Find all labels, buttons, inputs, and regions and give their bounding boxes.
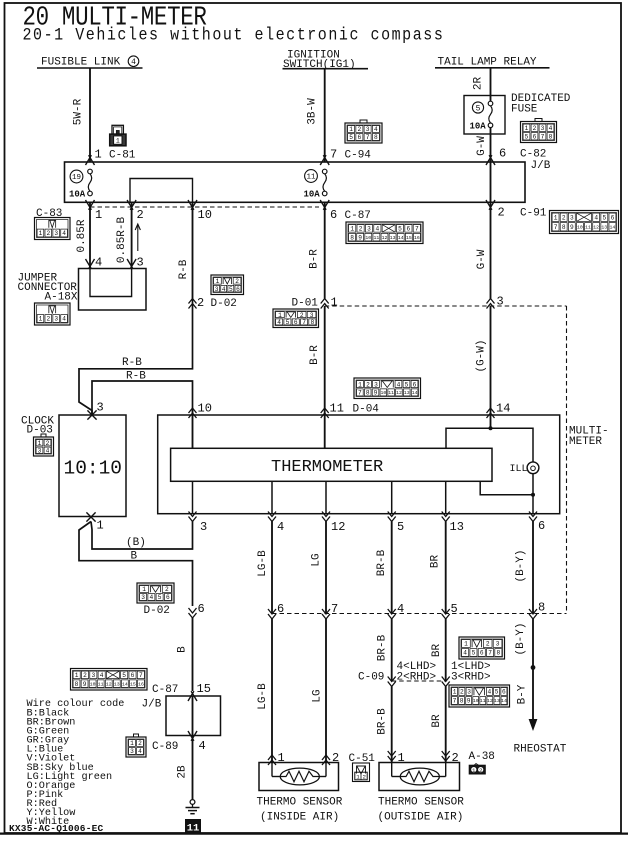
pin 4 jumper xyxy=(86,256,103,270)
svg-text:THERMOMETER: THERMOMETER xyxy=(271,458,383,477)
connector C-87 icon xyxy=(346,222,423,244)
svg-text:2: 2 xyxy=(562,214,566,221)
svg-text:LG-B: LG-B xyxy=(257,550,269,577)
label INSIDE AIR xyxy=(260,812,339,824)
label JUMPER CONNECTOR A-18X xyxy=(18,273,78,304)
svg-text:BR: BR xyxy=(431,714,443,728)
svg-text:1: 1 xyxy=(525,125,529,132)
svg-text:6: 6 xyxy=(166,594,170,601)
svg-text:5: 5 xyxy=(158,594,162,601)
svg-text:(B-Y): (B-Y) xyxy=(515,549,527,582)
svg-text:6: 6 xyxy=(330,208,337,222)
svg-text:BR: BR xyxy=(431,644,443,658)
wire pin11 to thermometer xyxy=(324,415,326,448)
svg-text:B-R: B-R xyxy=(309,345,321,365)
svg-text:2: 2 xyxy=(165,586,169,593)
connector C-82 icon xyxy=(521,119,557,143)
svg-text:D-02: D-02 xyxy=(144,605,170,617)
svg-text:16: 16 xyxy=(138,681,144,687)
svg-text:1: 1 xyxy=(39,230,43,237)
clock display 10:10 xyxy=(64,458,123,480)
svg-text:5W-R: 5W-R xyxy=(73,98,85,125)
svg-text:1: 1 xyxy=(350,226,354,233)
wire 0.85R-B xyxy=(116,202,132,268)
svg-text:2: 2 xyxy=(235,278,239,285)
svg-text:C-83: C-83 xyxy=(36,208,62,220)
connector C-91 icon xyxy=(550,211,619,234)
wire thermometer pin3 stub xyxy=(192,481,194,513)
svg-text:10: 10 xyxy=(198,208,212,222)
wire thermometer to ILL bottom xyxy=(480,481,533,495)
svg-text:8: 8 xyxy=(549,133,553,140)
svg-text:3: 3 xyxy=(97,401,104,415)
pin 4 multimeter xyxy=(268,512,284,535)
pin 3 clock xyxy=(87,401,103,420)
connector D-01 icon xyxy=(273,309,319,328)
wire 2R tail lamp relay to fuse xyxy=(473,68,491,102)
svg-text:6: 6 xyxy=(236,286,240,293)
svg-text:15: 15 xyxy=(130,681,136,687)
svg-text:4: 4 xyxy=(397,381,401,388)
pin 15 C-87 xyxy=(152,682,211,701)
connector D-03 icon xyxy=(34,434,54,456)
svg-text:2: 2 xyxy=(197,296,204,310)
svg-text:J/B: J/B xyxy=(531,160,551,172)
svg-text:2: 2 xyxy=(46,316,50,323)
svg-text:G-W: G-W xyxy=(476,136,488,156)
svg-text:12: 12 xyxy=(396,390,402,396)
svg-text:13: 13 xyxy=(404,390,410,396)
wire R-B to clock xyxy=(79,299,193,416)
resistor outside sensor xyxy=(392,763,446,785)
svg-text:8: 8 xyxy=(310,319,314,326)
svg-text:2: 2 xyxy=(138,740,142,747)
label DEDICATED FUSE xyxy=(511,93,571,116)
svg-text:5: 5 xyxy=(398,226,402,233)
svg-text:5: 5 xyxy=(525,133,529,140)
svg-text:A-38: A-38 xyxy=(469,751,495,763)
connector D-02 icon lower xyxy=(137,583,174,603)
svg-text:8: 8 xyxy=(350,234,354,241)
svg-text:LG: LG xyxy=(311,553,323,566)
node B-Y junction xyxy=(531,665,536,670)
multimeter dashed boundary right xyxy=(566,306,568,614)
svg-text:5: 5 xyxy=(229,286,233,293)
svg-text:5: 5 xyxy=(472,650,476,657)
label J/B xyxy=(531,160,551,172)
svg-text:4: 4 xyxy=(463,650,467,657)
wire B-R upper xyxy=(309,202,325,298)
svg-text:6: 6 xyxy=(538,519,545,533)
svg-text:1: 1 xyxy=(216,278,220,285)
pin 8 row xyxy=(529,601,545,620)
label 10A middle xyxy=(304,190,321,200)
svg-text:6: 6 xyxy=(407,226,411,233)
jumper connector box xyxy=(79,269,147,311)
svg-text:10: 10 xyxy=(473,698,479,704)
wire thermometer pin12 stub xyxy=(325,481,327,513)
svg-text:10A: 10A xyxy=(69,190,86,200)
svg-text:14: 14 xyxy=(122,681,128,687)
pin 1 J/B left xyxy=(86,200,103,222)
svg-text:1: 1 xyxy=(464,641,468,648)
wire (G-W) lower xyxy=(476,306,491,408)
svg-text:4: 4 xyxy=(277,319,281,326)
svg-text:11: 11 xyxy=(306,174,316,182)
svg-text:D-03: D-03 xyxy=(27,425,53,437)
svg-text:11: 11 xyxy=(388,390,394,396)
svg-text:8: 8 xyxy=(374,134,378,141)
pin 5 row xyxy=(442,602,458,619)
svg-text:BR-B: BR-B xyxy=(377,708,389,735)
wire 0.85R xyxy=(76,202,90,268)
label CLOCK D-03 xyxy=(21,416,54,437)
lamp ILL xyxy=(510,462,539,475)
connector C-94 icon xyxy=(345,120,382,143)
svg-text:5: 5 xyxy=(286,319,290,326)
svg-text:2: 2 xyxy=(358,126,362,133)
label MULTI-METER xyxy=(569,426,609,449)
subtitle xyxy=(23,26,445,45)
svg-text:11: 11 xyxy=(585,224,591,230)
node FUSIBLE LINK 4 xyxy=(37,56,143,69)
svg-text:6: 6 xyxy=(502,689,506,696)
svg-text:FUSE: FUSE xyxy=(511,104,538,116)
svg-text:2: 2 xyxy=(300,312,304,319)
svg-text:2<RHD>: 2<RHD> xyxy=(397,672,437,684)
pin 1 inside sensor xyxy=(268,751,285,765)
svg-text:2: 2 xyxy=(366,381,370,388)
svg-text:7: 7 xyxy=(554,224,558,231)
svg-text:RHEOSTAT: RHEOSTAT xyxy=(514,744,567,756)
svg-text:4: 4 xyxy=(277,520,284,534)
pin 7 C-94 xyxy=(320,148,371,166)
svg-text:1: 1 xyxy=(38,440,42,447)
connector C-09 icon LHD xyxy=(459,637,505,659)
connector C-09 icon RHD xyxy=(449,685,510,707)
svg-text:KX35-AC-Q1006-EC: KX35-AC-Q1006-EC xyxy=(9,823,104,834)
connector row C-09 dashed xyxy=(392,680,446,682)
svg-text:9: 9 xyxy=(83,681,87,688)
svg-text:5: 5 xyxy=(405,381,409,388)
svg-text:1: 1 xyxy=(39,316,43,323)
svg-text:C-82: C-82 xyxy=(520,149,546,161)
svg-text:7: 7 xyxy=(139,672,143,679)
wire colour code legend xyxy=(27,698,125,828)
svg-text:B: B xyxy=(177,646,189,653)
svg-text:4: 4 xyxy=(138,748,142,755)
wire 3B-W ignition to J/B xyxy=(307,69,325,162)
connector C-83 icon xyxy=(35,218,71,240)
svg-text:2: 2 xyxy=(479,767,483,774)
pin 6 D-02 B wire xyxy=(144,602,205,618)
pin 12 multimeter xyxy=(322,512,345,535)
pin 4-2 C-09 xyxy=(358,661,436,687)
svg-text:7: 7 xyxy=(415,226,419,233)
svg-text:METER: METER xyxy=(569,436,602,448)
pin 1 outside sensor xyxy=(388,751,405,765)
svg-text:8: 8 xyxy=(562,224,566,231)
wire B-Y lower xyxy=(515,619,533,728)
pin 1-3 C-09 xyxy=(442,661,491,687)
svg-text:12: 12 xyxy=(382,235,388,241)
svg-text:9: 9 xyxy=(467,698,471,705)
label OUTSIDE AIR xyxy=(378,812,464,824)
svg-text:C-81: C-81 xyxy=(109,150,136,162)
footer document number xyxy=(9,823,104,834)
svg-text:14: 14 xyxy=(610,224,616,230)
svg-text:10: 10 xyxy=(90,681,96,687)
svg-text:2: 2 xyxy=(46,230,50,237)
svg-text:8: 8 xyxy=(496,650,500,657)
svg-text:13: 13 xyxy=(601,224,607,230)
wire LG upper xyxy=(311,522,327,614)
connector A-38 label xyxy=(469,751,495,763)
pin 1 C-81 xyxy=(86,148,136,166)
svg-text:11: 11 xyxy=(330,402,344,416)
label THERMO SENSOR inside xyxy=(257,797,343,809)
wire B clock to ground chain xyxy=(79,522,193,607)
resistor inside sensor xyxy=(272,763,326,785)
svg-text:10: 10 xyxy=(365,235,371,241)
svg-text:1: 1 xyxy=(278,312,282,319)
wire R-B from J/B pin 10 xyxy=(178,202,193,298)
wire BR-B mid xyxy=(377,619,392,681)
wire LG-B upper xyxy=(257,522,272,614)
pin 6 C-82 xyxy=(486,147,546,166)
svg-text:D-02: D-02 xyxy=(211,298,237,310)
pin 4 C-89 xyxy=(152,731,206,753)
svg-text:1: 1 xyxy=(95,148,102,162)
fuse element middle xyxy=(322,169,327,196)
svg-text:FUSIBLE LINK: FUSIBLE LINK xyxy=(41,57,121,69)
connector D-04 icon xyxy=(354,378,421,399)
pin 4 row xyxy=(388,602,405,619)
dedicated fuse box xyxy=(464,96,505,135)
svg-text:6: 6 xyxy=(611,214,615,221)
thermometer box xyxy=(171,448,492,481)
svg-text:6: 6 xyxy=(413,381,417,388)
svg-text:LG-B: LG-B xyxy=(257,683,269,710)
svg-text:2: 2 xyxy=(83,672,87,679)
wire thermometer pin5 stub xyxy=(391,481,393,513)
junction block J/B box xyxy=(65,162,526,202)
svg-text:7: 7 xyxy=(302,319,306,326)
svg-text:6: 6 xyxy=(499,147,506,161)
connector row C-83 dashed line xyxy=(90,206,319,208)
multimeter box xyxy=(158,415,560,514)
pin 2 C-91 xyxy=(486,200,547,220)
svg-text:3: 3 xyxy=(38,447,42,454)
svg-text:(B-Y): (B-Y) xyxy=(515,622,527,655)
connector A-18X icon xyxy=(35,303,71,325)
svg-text:1: 1 xyxy=(349,126,353,133)
pin 3 jumper xyxy=(127,256,144,270)
svg-text:1: 1 xyxy=(130,740,134,747)
svg-text:4: 4 xyxy=(150,594,154,601)
svg-text:D-01: D-01 xyxy=(292,298,319,310)
svg-text:1: 1 xyxy=(75,672,79,679)
svg-text:14: 14 xyxy=(398,235,404,241)
svg-text:12: 12 xyxy=(331,520,345,534)
svg-text:8: 8 xyxy=(75,681,79,688)
svg-text:4: 4 xyxy=(222,286,226,293)
svg-text:14: 14 xyxy=(496,402,510,416)
fuse 19 circled xyxy=(70,170,83,183)
svg-text:5: 5 xyxy=(476,104,481,113)
svg-text:8: 8 xyxy=(460,698,464,705)
svg-text:9: 9 xyxy=(570,224,574,231)
svg-text:1: 1 xyxy=(97,519,104,533)
svg-text:4: 4 xyxy=(199,739,206,753)
svg-text:6: 6 xyxy=(294,319,298,326)
svg-text:2: 2 xyxy=(486,641,490,648)
svg-text:0.85R: 0.85R xyxy=(76,219,88,252)
fuse element left xyxy=(88,169,93,196)
svg-text:4: 4 xyxy=(46,447,50,454)
pin 3 D-01 xyxy=(487,295,504,309)
connector A-38 icon xyxy=(469,764,485,774)
svg-text:13: 13 xyxy=(390,235,396,241)
pin 6 multimeter xyxy=(529,512,545,534)
wire B-R pin11 stub xyxy=(324,408,326,415)
wire BR-B upper xyxy=(376,522,392,614)
pin 7 row xyxy=(322,602,338,619)
pin 10 multimeter xyxy=(189,402,212,419)
svg-text:1: 1 xyxy=(356,774,360,781)
svg-text:4: 4 xyxy=(100,672,104,679)
svg-text:4: 4 xyxy=(374,126,378,133)
svg-text:16: 16 xyxy=(414,235,420,241)
svg-text:4: 4 xyxy=(95,256,102,270)
svg-text:C-09: C-09 xyxy=(358,672,384,684)
svg-text:12: 12 xyxy=(487,698,493,704)
svg-text:D-04: D-04 xyxy=(353,404,380,416)
wire 5W-R fusible link to J/B xyxy=(73,68,91,162)
svg-text:1: 1 xyxy=(472,767,476,774)
svg-text:19: 19 xyxy=(72,174,81,182)
svg-text:2: 2 xyxy=(460,689,464,696)
svg-text:3: 3 xyxy=(54,316,58,323)
pin 13 multimeter xyxy=(442,512,464,535)
svg-text:4: 4 xyxy=(62,230,66,237)
svg-text:ILL: ILL xyxy=(510,464,528,475)
wire G-W through J/B xyxy=(490,162,492,202)
connector C-83 label xyxy=(36,208,62,220)
svg-text:12: 12 xyxy=(106,681,112,687)
pin 1 D-01 xyxy=(292,296,338,310)
svg-text:2R: 2R xyxy=(473,77,485,91)
svg-text:11: 11 xyxy=(187,823,200,835)
svg-text:5: 5 xyxy=(602,214,606,221)
wire pin6 inside box xyxy=(532,495,534,514)
svg-text:BR-B: BR-B xyxy=(376,549,388,576)
wire BR upper xyxy=(430,522,446,614)
svg-text:5: 5 xyxy=(349,134,353,141)
svg-text:BR-B: BR-B xyxy=(377,634,389,661)
svg-text:3: 3 xyxy=(496,641,500,648)
svg-text:1: 1 xyxy=(358,381,362,388)
svg-text:3: 3 xyxy=(541,125,545,132)
svg-text:B-Y: B-Y xyxy=(517,684,529,704)
svg-text:3: 3 xyxy=(467,689,471,696)
pin 11 D-04 xyxy=(321,402,380,419)
wire LG lower xyxy=(312,619,327,763)
svg-text:15: 15 xyxy=(197,682,211,696)
svg-text:6: 6 xyxy=(131,672,135,679)
junction block J/B lower box xyxy=(142,696,221,736)
svg-text:3: 3 xyxy=(310,312,314,319)
svg-text:6: 6 xyxy=(480,650,484,657)
pin 2 D-02 xyxy=(189,296,237,310)
svg-text:R-B: R-B xyxy=(126,371,146,383)
wire junction to ILL lamp xyxy=(491,428,534,462)
svg-text:3: 3 xyxy=(570,214,574,221)
fuse 11 circled xyxy=(305,170,318,183)
label 10A dedicated xyxy=(470,122,487,132)
svg-text:4: 4 xyxy=(549,125,553,132)
pin 2 outside sensor xyxy=(442,751,459,765)
wire BR mid xyxy=(431,619,446,681)
ground xyxy=(186,800,200,814)
svg-text:20-1 Vehicles without electron: 20-1 Vehicles without electronic compass xyxy=(23,26,445,45)
svg-text:3: 3 xyxy=(374,381,378,388)
svg-text:C-89: C-89 xyxy=(152,741,178,753)
wire pin10 to thermometer xyxy=(192,415,194,448)
svg-text:5: 5 xyxy=(495,689,499,696)
pin 2 J/B xyxy=(127,200,144,222)
label 10A left xyxy=(69,190,86,200)
pin 14 D-04 xyxy=(487,402,511,419)
svg-text:THERMO SENSOR: THERMO SENSOR xyxy=(257,797,343,809)
svg-text:11: 11 xyxy=(374,235,380,241)
svg-text:R-B: R-B xyxy=(122,357,142,369)
svg-text:2: 2 xyxy=(498,206,505,220)
pin 1 clock xyxy=(86,512,103,532)
wire pin14 to ILL junction xyxy=(490,415,492,428)
svg-text:G-W: G-W xyxy=(476,249,488,269)
svg-text:4: 4 xyxy=(397,602,404,616)
svg-text:10: 10 xyxy=(380,390,386,396)
connector row D-02 dashed line xyxy=(272,613,567,615)
svg-text:4: 4 xyxy=(131,58,136,67)
pin 5 multimeter xyxy=(388,512,405,535)
label THERMOMETER xyxy=(271,458,383,477)
svg-text:3: 3 xyxy=(141,594,145,601)
svg-text:3: 3 xyxy=(497,295,504,309)
wire BR lower xyxy=(431,687,446,763)
svg-text:10A: 10A xyxy=(470,122,487,132)
svg-text:13: 13 xyxy=(494,698,500,704)
svg-text:C-94: C-94 xyxy=(345,150,372,162)
svg-text:2: 2 xyxy=(46,440,50,447)
thermo sensor outside box xyxy=(379,763,460,791)
svg-text:4: 4 xyxy=(62,316,66,323)
svg-text:3: 3 xyxy=(130,748,134,755)
wire G-W pin14 stub xyxy=(490,408,492,415)
svg-text:A-18X: A-18X xyxy=(45,292,78,304)
svg-text:(OUTSIDE AIR): (OUTSIDE AIR) xyxy=(378,812,464,824)
svg-text:LG: LG xyxy=(312,689,324,702)
svg-text:1: 1 xyxy=(331,296,338,310)
wire thermometer pin4 stub xyxy=(271,481,273,513)
svg-text:2B: 2B xyxy=(177,765,189,779)
fuse 5 circled xyxy=(472,102,483,113)
svg-text:5: 5 xyxy=(397,520,404,534)
svg-text:7: 7 xyxy=(331,602,338,616)
svg-text:11: 11 xyxy=(98,681,104,687)
svg-text:5: 5 xyxy=(122,672,126,679)
